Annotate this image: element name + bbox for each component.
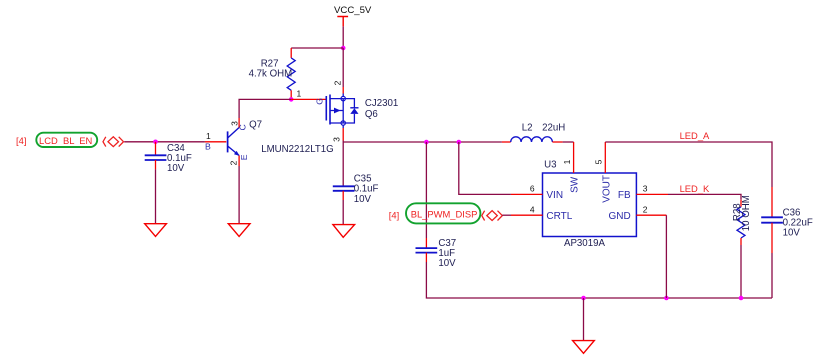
node VIN branch [457, 140, 462, 145]
ground under C35 [333, 225, 355, 238]
net LED_K wire [668, 194, 741, 199]
wire LCD_BL_EN to Q7 base [124, 141, 205, 143]
wire Q6 drain to rail [342, 141, 344, 143]
svg-text:3: 3 [332, 137, 342, 142]
node GND pin junction [664, 296, 669, 301]
svg-text:10V: 10V [783, 228, 801, 239]
svg-text:VCC_5V: VCC_5V [334, 5, 372, 16]
wire C36 to bottom rail [771, 253, 773, 298]
inductor L2 [502, 122, 565, 142]
svg-text:LED_A: LED_A [680, 130, 710, 141]
resistor R27 [249, 48, 296, 99]
ground under C34 [145, 224, 167, 237]
svg-text:BL_PWM_DISP: BL_PWM_DISP [411, 209, 478, 220]
wire C37 to bottom rail [426, 262, 583, 298]
wire VIN branch [459, 142, 511, 194]
svg-text:[4]: [4] [389, 210, 399, 221]
transistor Q7 [205, 118, 334, 166]
svg-text:LCD BL EN: LCD BL EN [39, 135, 92, 146]
svg-text:6: 6 [530, 183, 535, 193]
transistor Q6 CJ2301 p-mosfet [291, 80, 398, 142]
wire VCC junction to Q6 source [342, 48, 344, 87]
wire C34 to ground [155, 169, 157, 223]
pin 5 VOUT [604, 142, 606, 173]
svg-text:GND: GND [608, 211, 630, 222]
svg-text:G: G [314, 98, 324, 105]
svg-text:C: C [237, 124, 247, 130]
svg-text:LED_K: LED_K [680, 183, 710, 194]
node R28 junction [739, 296, 744, 301]
wire collector to gate junction [239, 99, 291, 118]
svg-text:1: 1 [562, 159, 572, 164]
svg-text:AP3019A: AP3019A [564, 238, 605, 249]
node gate junction [289, 97, 294, 102]
svg-text:Q7: Q7 [249, 120, 262, 131]
ground bottom [573, 341, 595, 354]
svg-text:B: B [205, 142, 211, 152]
pin 4 CRTL [511, 214, 543, 216]
svg-text:2: 2 [332, 80, 342, 85]
svg-text:[4]: [4] [16, 135, 26, 146]
svg-text:3: 3 [643, 183, 648, 193]
capacitor C34 [145, 142, 192, 174]
capacitor C36 [761, 187, 813, 253]
op-amp U3 AP3019A [511, 142, 668, 249]
node VCC junction [341, 46, 346, 51]
wire R28 to bottom rail [740, 245, 742, 298]
svg-text:SW: SW [570, 176, 581, 193]
capacitor C37 [416, 238, 457, 269]
power symbol VCC_5V [334, 5, 372, 26]
node ground junction [581, 296, 586, 301]
pin 1 SW [573, 142, 575, 173]
svg-text:22uH: 22uH [542, 122, 565, 133]
port BL_PWM_DISP [389, 203, 503, 223]
wire bottom rail [584, 297, 773, 299]
pin 2 GND [636, 214, 666, 216]
svg-text:LMUN2212LT1G: LMUN2212LT1G [261, 144, 334, 155]
svg-text:E: E [239, 154, 249, 160]
wire Q7 emitter to ground [238, 166, 240, 224]
svg-text:CRTL: CRTL [546, 211, 572, 222]
resistor R28 [732, 195, 752, 245]
pin 6 VIN [511, 193, 543, 195]
wire C35 to ground [342, 200, 344, 225]
svg-text:5: 5 [594, 159, 604, 164]
svg-text:4.7k OHM: 4.7k OHM [249, 68, 293, 79]
svg-text:10V: 10V [354, 194, 372, 205]
capacitor C35 [333, 142, 379, 205]
net LED_A wire [605, 142, 772, 187]
svg-text:2: 2 [643, 205, 648, 215]
svg-text:U3: U3 [544, 160, 556, 171]
wire VCC_5V stem [342, 26, 344, 48]
svg-text:1: 1 [206, 131, 211, 141]
svg-text:1: 1 [297, 89, 302, 99]
node C37 branch [424, 140, 429, 145]
svg-text:2: 2 [229, 160, 239, 165]
port LCD_BL_EN [16, 133, 124, 147]
svg-text:VOUT: VOUT [602, 175, 613, 203]
svg-text:10V: 10V [167, 163, 185, 174]
svg-text:CJ2301: CJ2301 [365, 98, 398, 109]
pin 3 FB [636, 193, 668, 195]
svg-text:L2: L2 [522, 122, 533, 133]
svg-text:Q6: Q6 [365, 109, 378, 120]
wire GND pin down [665, 215, 667, 298]
wire BL_PWM_DISP to CRTL [502, 214, 511, 216]
svg-text:VIN: VIN [546, 190, 563, 201]
svg-text:4: 4 [530, 205, 535, 215]
svg-text:10V: 10V [438, 258, 456, 269]
wire L2 to SW corner [563, 141, 574, 143]
wire ground stem [583, 298, 585, 341]
ground under Q7 [228, 224, 250, 237]
wire C37 branch down [425, 142, 427, 238]
svg-text:10 OHM: 10 OHM [741, 195, 752, 231]
svg-text:FB: FB [618, 190, 631, 201]
wire VCC to R27 top [291, 47, 343, 49]
node C34 junction [153, 140, 158, 145]
wire main rail to L2 [343, 141, 502, 143]
